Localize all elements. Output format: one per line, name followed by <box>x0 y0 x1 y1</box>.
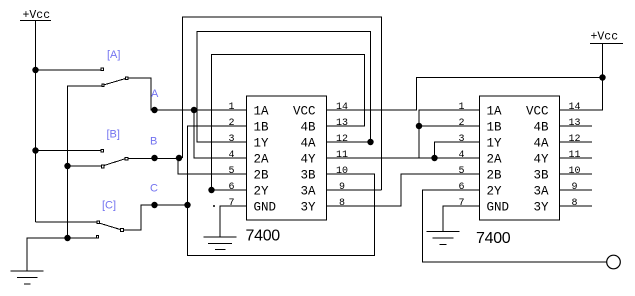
wire switch C upper throw from Vcc rail <box>36 221 98 223</box>
node pin 7 tick <box>213 205 215 207</box>
svg-text:1Y: 1Y <box>254 137 270 151</box>
wire pin 9 3A <box>327 189 382 191</box>
node ground rail bottom junction <box>64 235 70 241</box>
wire U2 pin2 1B <box>419 125 480 127</box>
svg-text:3Y: 3Y <box>300 201 316 215</box>
switch S1 contact lower <box>102 84 104 86</box>
IC U2 pin name labels <box>487 105 549 215</box>
svg-text:5: 5 <box>228 166 234 177</box>
node Vcc-switchA junction <box>32 67 38 73</box>
switch S3 arm <box>100 223 121 229</box>
node A dot <box>151 107 157 113</box>
node pin 12 4A dot <box>367 139 373 145</box>
wire U2 pin 8 stub <box>560 205 593 207</box>
switch S3 contact lower <box>96 236 98 238</box>
svg-text:3B: 3B <box>300 169 316 183</box>
svg-text:2Y: 2Y <box>487 185 503 199</box>
wire switch B upper throw from Vcc rail <box>36 150 101 152</box>
wire U2 pin 12 stub <box>560 141 593 143</box>
svg-text:4Y: 4Y <box>300 153 316 167</box>
svg-text:3A: 3A <box>533 185 549 199</box>
svg-text:2B: 2B <box>487 169 503 183</box>
svg-text:3: 3 <box>458 134 464 145</box>
svg-text:8: 8 <box>339 198 345 209</box>
wire switch A pole to node A <box>128 78 247 110</box>
power +Vcc left bar <box>20 20 51 22</box>
node Vcc-switchB junction <box>32 147 38 153</box>
wire U2 pin3 1Y elbow <box>435 142 480 158</box>
svg-text:2Y: 2Y <box>254 185 270 199</box>
svg-text:4A: 4A <box>300 137 316 151</box>
svg-text:9: 9 <box>571 182 577 193</box>
svg-text:[A]: [A] <box>107 49 120 61</box>
node U2 pin2 dot <box>416 123 422 129</box>
svg-text:[B]: [B] <box>107 129 120 141</box>
node B dot <box>151 155 157 161</box>
svg-text:1B: 1B <box>487 121 503 135</box>
svg-text:2: 2 <box>458 118 464 129</box>
wire switch C lower throw from ground <box>27 238 98 271</box>
svg-text:13: 13 <box>336 118 348 129</box>
wire outer loop B to 4Y/3A <box>183 17 382 190</box>
switch S1 pivot <box>125 77 128 80</box>
wire U2 pin 13 stub <box>560 125 593 127</box>
wire U2 pin 7 GND to ground <box>443 206 480 232</box>
ground symbol IC2 <box>427 232 460 245</box>
svg-text:4A: 4A <box>533 137 549 151</box>
ground symbol IC1 <box>204 237 237 250</box>
power +Vcc right bar <box>590 43 623 45</box>
svg-text:4: 4 <box>228 150 234 161</box>
svg-text:7: 7 <box>458 198 464 209</box>
switch S3 pivot <box>121 229 124 232</box>
node pin 6 2Y dot <box>208 187 214 193</box>
node Vcc right junction <box>599 74 605 80</box>
IC U1 pin name labels <box>254 105 316 215</box>
svg-text:2A: 2A <box>487 153 503 167</box>
svg-text:1: 1 <box>228 102 234 113</box>
wire U2 pin 6 2Y to output <box>423 190 607 262</box>
switch S3 contact upper <box>97 221 99 223</box>
wire +Vcc right vertical and U2 pin 14 <box>559 44 603 111</box>
power +Vcc left label <box>23 9 51 22</box>
svg-text:10: 10 <box>568 166 580 177</box>
svg-text:2: 2 <box>228 118 234 129</box>
svg-text:1: 1 <box>458 102 464 113</box>
svg-text:4Y: 4Y <box>533 153 549 167</box>
svg-text:3B: 3B <box>533 169 549 183</box>
svg-text:12: 12 <box>568 134 580 145</box>
wire pin 7 GND to ground <box>220 206 247 237</box>
wire Vcc rail vertical <box>35 21 37 223</box>
svg-text:VCC: VCC <box>526 105 549 119</box>
wire pin 2 1B down and bottom loop to pin 10 3B <box>188 126 375 256</box>
switch S2 pivot <box>125 157 128 160</box>
svg-text:3Y: 3Y <box>533 201 549 215</box>
switch S2 contact lower <box>101 165 104 168</box>
svg-text:B: B <box>150 136 157 148</box>
IC U1 7400 body <box>247 96 327 220</box>
IC U1 pin numbers right <box>336 102 348 209</box>
svg-text:7400: 7400 <box>476 230 511 247</box>
IC U2 pin numbers right <box>568 102 580 209</box>
wire U2 pin 11 stub <box>560 157 593 159</box>
svg-text:14: 14 <box>336 102 348 113</box>
node B net dot <box>176 155 182 161</box>
svg-text:7: 7 <box>228 198 234 209</box>
wire pin 8 3Y to U2 pin 5 2B <box>327 174 480 206</box>
svg-text:1B: 1B <box>254 121 270 135</box>
wire U2 pin 10 stub <box>560 173 593 175</box>
wire switch C pole to node C <box>123 205 187 230</box>
svg-text:5: 5 <box>458 166 464 177</box>
svg-text:13: 13 <box>568 118 580 129</box>
terminal output circle <box>607 255 621 269</box>
switch S1 arm <box>104 79 125 85</box>
node ground rail-switch B junction <box>64 163 70 169</box>
node U2 1Y junction dot <box>431 155 437 161</box>
svg-text:8: 8 <box>571 198 577 209</box>
svg-text:2A: 2A <box>254 153 270 167</box>
switch S2 contact upper <box>101 149 104 152</box>
wire B branch down to pin 5 <box>178 158 247 174</box>
IC U1 pin numbers left <box>228 102 234 209</box>
switch S1 contact upper <box>101 68 103 70</box>
svg-text:3A: 3A <box>300 185 316 199</box>
svg-text:3: 3 <box>228 134 234 145</box>
svg-text:C: C <box>150 183 158 195</box>
wire pin 6 2Y inner loop to pin 13 4B <box>212 55 365 191</box>
wire pin 14 VCC to +Vcc rail <box>327 78 603 111</box>
node C net dot <box>184 202 190 208</box>
svg-text:1A: 1A <box>487 105 503 119</box>
svg-text:GND: GND <box>487 201 510 215</box>
svg-text:11: 11 <box>568 150 580 161</box>
svg-text:10: 10 <box>336 166 348 177</box>
wire pin 3 1Y middle loop to pin 12 4A <box>197 32 371 143</box>
svg-text:11: 11 <box>336 150 348 161</box>
svg-text:4: 4 <box>458 150 464 161</box>
svg-text:4B: 4B <box>300 121 316 135</box>
svg-text:12: 12 <box>336 134 348 145</box>
wire U2 pin 9 stub <box>560 189 593 191</box>
wire switch B pole to node B <box>128 158 178 160</box>
svg-text:2B: 2B <box>254 169 270 183</box>
svg-text:1Y: 1Y <box>487 137 503 151</box>
svg-text:1A: 1A <box>254 105 270 119</box>
power +Vcc right label <box>591 31 619 44</box>
wire U2 pin1 1A branch <box>419 110 480 158</box>
svg-text:[C]: [C] <box>102 200 116 212</box>
svg-text:GND: GND <box>254 201 277 215</box>
svg-text:7400: 7400 <box>246 228 281 245</box>
IC U2 pin numbers left <box>458 102 464 209</box>
wire switch B lower throw from ground rail <box>68 165 101 167</box>
wire ground rail corner + switch A lower throw <box>68 86 102 238</box>
svg-text:14: 14 <box>568 102 580 113</box>
node C dot <box>151 202 157 208</box>
IC U2 7400 body <box>480 96 560 220</box>
ground symbol bottom left <box>11 271 44 284</box>
wire pin 11 4Y long wire to U2 2A <box>327 157 480 159</box>
svg-text:A: A <box>151 88 159 100</box>
svg-text:6: 6 <box>228 182 234 193</box>
svg-text:6: 6 <box>458 182 464 193</box>
svg-text:9: 9 <box>339 182 345 193</box>
svg-text:VCC: VCC <box>293 105 316 119</box>
switch S2 arm <box>104 159 125 166</box>
node A to 2A branch dot <box>191 107 197 113</box>
svg-text:+Vcc: +Vcc <box>591 31 619 44</box>
wire A branch down to pin 4 <box>194 110 247 158</box>
svg-text:4B: 4B <box>533 121 549 135</box>
wire switch A upper throw from Vcc rail <box>36 69 101 71</box>
